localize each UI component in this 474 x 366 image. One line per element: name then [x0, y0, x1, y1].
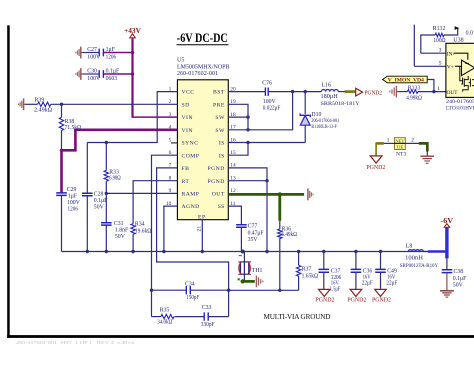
svg-text:0.022μF: 0.022μF — [263, 105, 281, 111]
PGND2 (NT3) — [366, 156, 385, 171]
svg-text:PGND2: PGND2 — [316, 297, 335, 303]
svg-text:16V: 16V — [331, 280, 340, 286]
off-page arrow — [455, 26, 460, 30]
svg-text:SD: SD — [182, 102, 190, 108]
bus junction dots — [86, 250, 383, 254]
svg-text:NET: NET — [395, 139, 404, 144]
svg-text:6.98Ω: 6.98Ω — [109, 176, 121, 182]
svg-text:4.99kΩ: 4.99kΩ — [406, 96, 422, 102]
svg-text:SW: SW — [215, 128, 225, 134]
svg-text:0.1μF: 0.1μF — [106, 69, 120, 75]
resistor R39 — [24, 98, 53, 114]
svg-text:1.5μF: 1.5μF — [330, 286, 341, 292]
svg-text:19.6kΩ: 19.6kΩ — [135, 228, 152, 234]
junction C76/SW — [291, 90, 294, 93]
wire flag to OUT row — [427, 80, 434, 92]
ground bus wire — [62, 251, 446, 253]
ground (C27) — [76, 47, 81, 59]
svg-text:LTC6101HVB: LTC6101HVB — [446, 106, 474, 112]
svg-text:IS: IS — [219, 141, 225, 147]
U5 reference labels — [177, 58, 230, 77]
svg-text:R38: R38 — [65, 119, 75, 125]
svg-text:1μF: 1μF — [68, 194, 78, 200]
PGND2 (C37) — [316, 289, 335, 303]
wire SD row (R39 to pin2) — [51, 103, 178, 105]
wire PRE pin19 / SW pin18 tie — [228, 104, 248, 130]
capacitor C33 — [174, 305, 228, 328]
net tie NT3 — [387, 138, 415, 158]
resistor R133 — [396, 86, 446, 102]
svg-text:1.8nF: 1.8nF — [115, 228, 129, 234]
wire V+ pin5 — [414, 25, 446, 67]
wire VCC pin1 to VCC node — [87, 92, 177, 143]
inductor L16 — [321, 83, 360, 107]
svg-text:0.1μF: 0.1μF — [453, 276, 467, 282]
wire SW node down from C76 junction — [228, 92, 292, 130]
svg-text:R35: R35 — [160, 307, 170, 313]
resistor R33 — [104, 143, 121, 194]
svg-text:71.5kΩ: 71.5kΩ — [65, 125, 82, 131]
svg-text:R33: R33 — [109, 169, 119, 175]
svg-text:C34: C34 — [185, 282, 195, 288]
wire PGND pins 13,14 down to bus — [228, 168, 267, 252]
resistor R132 — [421, 26, 458, 53]
svg-text:AGND: AGND — [182, 204, 200, 210]
capacitor C37 — [319, 252, 342, 293]
IC U5 body — [177, 80, 228, 220]
svg-text:COMP: COMP — [182, 153, 200, 159]
svg-text:U38: U38 — [453, 38, 463, 44]
svg-text:PGND2: PGND2 — [365, 90, 383, 96]
ground (TH1) — [256, 276, 263, 288]
svg-text:50V: 50V — [453, 283, 464, 289]
svg-text:PGND2: PGND2 — [372, 297, 391, 303]
svg-text:180μH: 180μH — [321, 94, 339, 100]
svg-text:VIN: VIN — [182, 115, 193, 121]
svg-text:22μF: 22μF — [362, 280, 374, 286]
svg-text:U5: U5 — [177, 58, 184, 64]
svg-text:100V: 100V — [67, 200, 81, 206]
svg-text:RAMP: RAMP — [182, 192, 200, 198]
wire IS pin15 tie — [228, 143, 248, 156]
earth ground (C38) — [440, 291, 454, 297]
svg-text:C28: C28 — [94, 192, 104, 198]
svg-text:206-017604-001: 206-017604-001 — [311, 119, 339, 124]
resistor R35 — [152, 307, 175, 325]
svg-text:D10: D10 — [311, 112, 321, 118]
junction flag/OUT — [432, 90, 435, 93]
junction R33/SYNC-row — [105, 141, 108, 144]
U5 pin names — [182, 90, 225, 221]
capacitor C49 — [375, 252, 398, 290]
svg-text:OUT: OUT — [447, 90, 459, 96]
svg-text:50V: 50V — [94, 205, 105, 211]
wire AGND pin10 down — [164, 206, 178, 251]
svg-text:SRR5018-181Y: SRR5018-181Y — [321, 101, 360, 107]
svg-text:150pF: 150pF — [186, 295, 200, 301]
svg-text:SRP0012TA-R10Y: SRP0012TA-R10Y — [400, 263, 439, 269]
junction pin17 tie — [246, 128, 249, 131]
svg-text:0.47μF: 0.47μF — [248, 231, 265, 237]
wire NT3 pin1 to PGND2 — [376, 143, 394, 156]
svg-text:L8: L8 — [406, 244, 413, 250]
resistor R34 — [131, 221, 152, 251]
svg-text:C38: C38 — [454, 269, 464, 275]
svg-text:100V: 100V — [87, 76, 101, 82]
wire EP pin21 down — [201, 220, 203, 252]
svg-text:C30: C30 — [87, 69, 97, 75]
capacitor C36 — [351, 252, 374, 290]
svg-text:PGND2: PGND2 — [366, 165, 385, 171]
ground (R39) — [19, 98, 24, 110]
svg-text:240-017605-001: 240-017605-001 — [446, 99, 474, 105]
junction D10/BST row — [304, 90, 307, 93]
wire NT3 pin2 to earth — [405, 143, 427, 156]
junction C27/+43V — [131, 51, 134, 54]
svg-text:SYNC: SYNC — [182, 141, 199, 147]
wire VIN pin4 purple path to C29 — [62, 130, 178, 193]
capacitor C31 — [101, 193, 129, 251]
+43V power symbol — [124, 27, 142, 38]
svg-text:V+: V+ — [447, 64, 454, 70]
svg-text:RT: RT — [182, 179, 190, 185]
wire RAMP pin9 row — [106, 192, 177, 194]
svg-text:C33: C33 — [202, 305, 212, 311]
ground (C30) — [76, 68, 81, 80]
svg-text:R133: R133 — [408, 86, 421, 92]
svg-text:50V: 50V — [115, 234, 126, 240]
PGND2 right-arrow ground — [356, 88, 382, 96]
svg-text:B1100LB-13-F: B1100LB-13-F — [311, 125, 337, 130]
svg-text:R39: R39 — [35, 98, 45, 104]
svg-text:6.49kΩ: 6.49kΩ — [282, 232, 298, 238]
PGND2 (C36) — [347, 289, 366, 303]
svg-text:C76: C76 — [262, 81, 272, 87]
svg-text:C37: C37 — [331, 269, 341, 275]
junction C34 left — [150, 289, 153, 292]
svg-text:PGND: PGND — [208, 166, 225, 172]
wire FB pin7 to compensation right — [157, 168, 229, 317]
svg-text:100V: 100V — [263, 99, 277, 105]
wire olive net to PGND2 arrow — [345, 90, 356, 93]
capacitor C27 — [81, 47, 133, 61]
svg-text:R37: R37 — [302, 266, 312, 272]
wire COMP pin6 to compensation left — [152, 155, 178, 316]
op-amp U38 body — [437, 38, 474, 112]
U5 pin numbers — [166, 86, 236, 231]
junction purple R38/VIN — [60, 149, 63, 152]
svg-text:1: 1 — [437, 86, 440, 92]
-6V power bar — [428, 217, 454, 259]
title -6V DC-DC — [177, 31, 229, 45]
svg-text:L16: L16 — [322, 83, 331, 89]
svg-text:C29: C29 — [67, 187, 77, 193]
svg-text:SS: SS — [218, 204, 225, 210]
svg-text:0603: 0603 — [106, 76, 118, 82]
svg-text:FB: FB — [182, 166, 190, 172]
diode D10 — [300, 92, 340, 143]
svg-text:100V: 100V — [87, 55, 101, 61]
wire SS pin11 to C77 — [228, 206, 241, 224]
wire +43V vertical to VIN pin3 — [132, 38, 178, 117]
svg-text:OUT: OUT — [212, 192, 225, 198]
capacitor C29 — [56, 187, 80, 252]
svg-text:IS: IS — [219, 153, 225, 159]
svg-text:R132: R132 — [433, 26, 446, 32]
svg-text:NT3: NT3 — [396, 152, 406, 158]
svg-text:TH1: TH1 — [252, 268, 263, 274]
ground (OUT) — [308, 189, 313, 201]
svg-text:V_IMON_VD4: V_IMON_VD4 — [388, 77, 424, 83]
capacitor C30 — [81, 69, 133, 83]
svg-text:TIE: TIE — [396, 144, 403, 149]
svg-text:C31: C31 — [114, 221, 124, 227]
wire OUT pin12 thick green — [228, 193, 304, 196]
svg-text:1μF: 1μF — [106, 47, 116, 53]
thermistor TH1 — [238, 252, 262, 282]
resistor R36 — [229, 221, 299, 292]
svg-text:2.49kΩ: 2.49kΩ — [34, 108, 53, 114]
svg-text:0.0: 0.0 — [466, 30, 473, 36]
transistor inside U38 — [460, 66, 474, 91]
junction C34 right — [227, 289, 230, 292]
svg-text:-6V DC-DC: -6V DC-DC — [177, 31, 228, 45]
svg-text:1206: 1206 — [106, 55, 117, 61]
svg-text:LM5005MHX/NOPB: LM5005MHX/NOPB — [177, 64, 230, 70]
wire IN- pin3 — [421, 52, 446, 54]
junction pin13 tie — [265, 179, 268, 182]
svg-text:3: 3 — [439, 47, 442, 53]
svg-text:C27: C27 — [87, 47, 97, 53]
capacitor C76 — [262, 81, 321, 112]
svg-text:34.0kΩ: 34.0kΩ — [157, 319, 173, 325]
net label V_IMON_VD4 flag — [383, 76, 428, 83]
junction pin18 tie — [246, 115, 249, 118]
junction C30/+43V — [131, 72, 134, 75]
inductor L8 — [400, 244, 439, 270]
junction RAMP/R33/C31 — [105, 192, 108, 195]
wire BST pin20 row — [228, 91, 265, 93]
svg-text:C77: C77 — [248, 223, 258, 229]
capacitor C77 — [236, 223, 264, 251]
svg-text:PGND2: PGND2 — [347, 297, 366, 303]
svg-text:35V: 35V — [248, 237, 259, 243]
capacitor C38 — [442, 258, 467, 290]
svg-text:VCC: VCC — [182, 90, 195, 96]
PGND2 (C49) — [372, 289, 391, 303]
svg-text:1206: 1206 — [68, 207, 79, 213]
svg-text:SW: SW — [215, 115, 225, 121]
green tee to R36 — [278, 194, 281, 220]
svg-text:R34: R34 — [135, 221, 145, 227]
svg-text:BST: BST — [213, 90, 225, 96]
svg-text:260-017602-001: 260-017602-001 — [177, 71, 218, 77]
capacitor C34 — [152, 282, 229, 301]
green wire TH1 to ground — [238, 278, 255, 283]
capacitor C28 — [82, 143, 108, 252]
op-amp triangle inside U38 — [454, 53, 474, 75]
svg-text:22μF: 22μF — [386, 280, 398, 286]
pin5 SYNC stub — [171, 142, 177, 144]
svg-text:IN-: IN- — [447, 51, 455, 57]
resistor R37 — [296, 252, 318, 291]
svg-text:MULTI-VIA GROUND: MULTI-VIA GROUND — [264, 313, 331, 321]
wire IS pin16 row to D10 — [228, 142, 305, 144]
svg-text:PGND: PGND — [208, 179, 225, 185]
svg-text:1.65kΩ: 1.65kΩ — [302, 273, 319, 279]
svg-text:PRE: PRE — [213, 102, 225, 108]
svg-text:100Ω: 100Ω — [433, 38, 446, 44]
resistor R38 — [59, 104, 81, 150]
svg-text:VIN: VIN — [182, 128, 193, 134]
svg-text:5: 5 — [439, 60, 442, 66]
svg-text:260-017602-001 SHT 1 OF 1: 260-017602-001 SHT 1 OF 1 REV 4 v.40×4 — [16, 340, 134, 345]
svg-text:100nH: 100nH — [405, 256, 424, 262]
ground (R133) — [390, 86, 397, 98]
wire RT pin8 to R34 — [133, 181, 177, 224]
junction pin15/16 tie — [246, 141, 249, 144]
svg-text:330pF: 330pF — [201, 322, 215, 328]
junction R39/R38 — [60, 103, 63, 106]
earth ground (NT3) — [420, 156, 434, 163]
